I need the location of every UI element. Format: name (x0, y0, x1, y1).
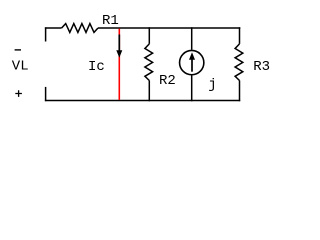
resistor R2 (145, 27, 176, 101)
wire left port top stub (45, 27, 47, 41)
svg-text:R3: R3 (253, 59, 270, 75)
current source j (180, 27, 217, 101)
svg-text:R2: R2 (159, 73, 176, 89)
wire top from left port to R1 and across to top-right corner (45, 27, 240, 29)
wire red branch (Ic measuring wire) (118, 29, 120, 100)
svg-text:R1: R1 (102, 13, 119, 29)
wire bottom rail (45, 100, 240, 102)
wire left port bottom stub (45, 87, 47, 101)
svg-text:Ic: Ic (88, 59, 105, 75)
node plus terminal label (15, 90, 22, 97)
current arrow Ic (88, 35, 122, 75)
svg-text:j: j (208, 77, 216, 93)
resistor R1 (62, 24, 98, 33)
svg-text:VL: VL (12, 59, 29, 75)
resistor R3 (235, 27, 270, 101)
node minus terminal label (15, 49, 21, 51)
